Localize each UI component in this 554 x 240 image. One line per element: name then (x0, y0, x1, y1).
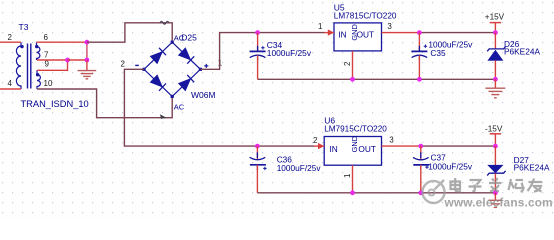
pin 1 wire U5 with arrow (324, 32, 334, 34)
junction +15V node (493, 30, 498, 35)
svg-text:W06M: W06M (191, 90, 216, 100)
svg-text:AC: AC (174, 102, 185, 111)
svg-text:1000uF/25v: 1000uF/25v (277, 163, 322, 173)
wire center tap to ground (68, 59, 87, 61)
svg-text:LM7815C/TO220: LM7815C/TO220 (334, 12, 397, 21)
wire pin 7 T3 (37, 59, 68, 61)
svg-text:P6KE24A: P6KE24A (504, 47, 540, 57)
svg-text:OUT: OUT (357, 29, 375, 39)
svg-text:2: 2 (121, 60, 126, 69)
svg-text:OUT: OUT (358, 144, 376, 154)
wire bridge minus to U6 input rail (124, 69, 314, 146)
junction top rail / C34 (255, 30, 260, 35)
svg-text:9: 9 (45, 60, 50, 69)
junction C35 bottom / rail (417, 77, 422, 82)
svg-text:IN: IN (338, 29, 346, 39)
regulator U6 box (324, 136, 381, 165)
svg-text:P6KE24A: P6KE24A (514, 162, 550, 172)
junction C37 bottom / rail (418, 190, 423, 195)
svg-text:C35: C35 (430, 48, 446, 58)
svg-text:IN: IN (330, 144, 338, 154)
junction -15V node (493, 144, 498, 149)
wire pin 4 T3 (0, 88, 21, 90)
pin 2 wire U6 with arrow (314, 145, 324, 147)
pin 3 wire U6 (382, 145, 421, 147)
svg-text:1: 1 (318, 22, 323, 31)
svg-text:T3: T3 (19, 22, 29, 32)
wire U6 out to -15V node (421, 145, 496, 147)
junction U5 gnd / rail (350, 77, 355, 82)
svg-text:2: 2 (313, 136, 318, 145)
pin name minus (135, 64, 139, 66)
ground (top rail) (494, 79, 496, 88)
junction U6 gnd / rail (350, 190, 355, 195)
pin name plus (204, 64, 208, 68)
bridge rectifier D25 (142, 41, 202, 98)
wire pin6 node to bridge AC top (87, 23, 172, 42)
wire ground rail (bottom half) (257, 192, 495, 194)
svg-text:10: 10 (44, 79, 53, 88)
svg-text:3: 3 (387, 22, 392, 31)
svg-text:7: 7 (44, 51, 49, 60)
pin 2 wire U5 (GND) (352, 51, 354, 79)
svg-text:-15V: -15V (485, 125, 503, 134)
power port +15V (485, 12, 505, 32)
TVS diode D27 (487, 146, 505, 193)
svg-text:TRAN_ISDN_10: TRAN_ISDN_10 (21, 99, 89, 109)
wire-end arrow mark near bridge AC bottom corner (160, 114, 167, 119)
svg-text:GND: GND (350, 136, 359, 152)
svg-text:4: 4 (8, 79, 13, 88)
pin 3 wire U5 (382, 32, 420, 34)
capacitor C37 (413, 146, 429, 193)
svg-text:2: 2 (343, 61, 352, 66)
svg-text:1000uF/25v: 1000uF/25v (428, 161, 473, 171)
svg-text:3: 3 (389, 135, 394, 144)
capacitor C34 (250, 33, 266, 80)
junction pin 6 node (85, 40, 90, 45)
watermark chinese text (hand-drawn strokes) (451, 178, 543, 192)
svg-text:www.elecfans.com: www.elecfans.com (444, 195, 553, 209)
wire pin 10 T3 to bridge AC bottom (37, 89, 172, 118)
capacitor C35 (411, 33, 427, 80)
junction C37 top (418, 144, 423, 149)
regulator U5 box (334, 23, 382, 51)
svg-text:1: 1 (343, 173, 352, 178)
svg-text:1000uF/25v: 1000uF/25v (267, 48, 312, 58)
wire bridge plus to top rail (200, 33, 324, 70)
pin 1 wire U6 (GND) (352, 165, 354, 193)
wire pin 9 T3 (37, 60, 68, 70)
transformer T3 (16, 42, 40, 89)
wire pin 6 T3 to junction (37, 41, 87, 43)
no-ERC squiggle on wire (160, 21, 169, 24)
TVS diode D26 (487, 33, 505, 80)
junction D27 / ground (493, 190, 498, 195)
wire pin6 node down to center tap node (86, 42, 88, 60)
svg-text:AC: AC (174, 33, 185, 42)
svg-text:LM7915C/TO220: LM7915C/TO220 (324, 125, 387, 134)
power port -15V (485, 125, 503, 147)
watermark logo (423, 180, 445, 203)
junction pins 7/9 (65, 58, 70, 63)
svg-text:2: 2 (8, 33, 13, 42)
svg-text:+15V: +15V (485, 12, 505, 21)
junction C35 top (417, 30, 422, 35)
wire ground rail (top half) (258, 78, 496, 80)
ground (bottom rail) (494, 193, 496, 200)
ground (transformer center tap) (86, 60, 88, 70)
junction C36 top (255, 144, 260, 149)
junction D26 / ground (493, 77, 498, 82)
wire pin 2 T3 (0, 41, 21, 43)
svg-text:GND: GND (350, 24, 359, 40)
junction center tap node (85, 58, 90, 63)
svg-text:6: 6 (44, 33, 49, 42)
capacitor C36 (250, 146, 267, 193)
wire U5 out to +15V node (419, 32, 495, 34)
